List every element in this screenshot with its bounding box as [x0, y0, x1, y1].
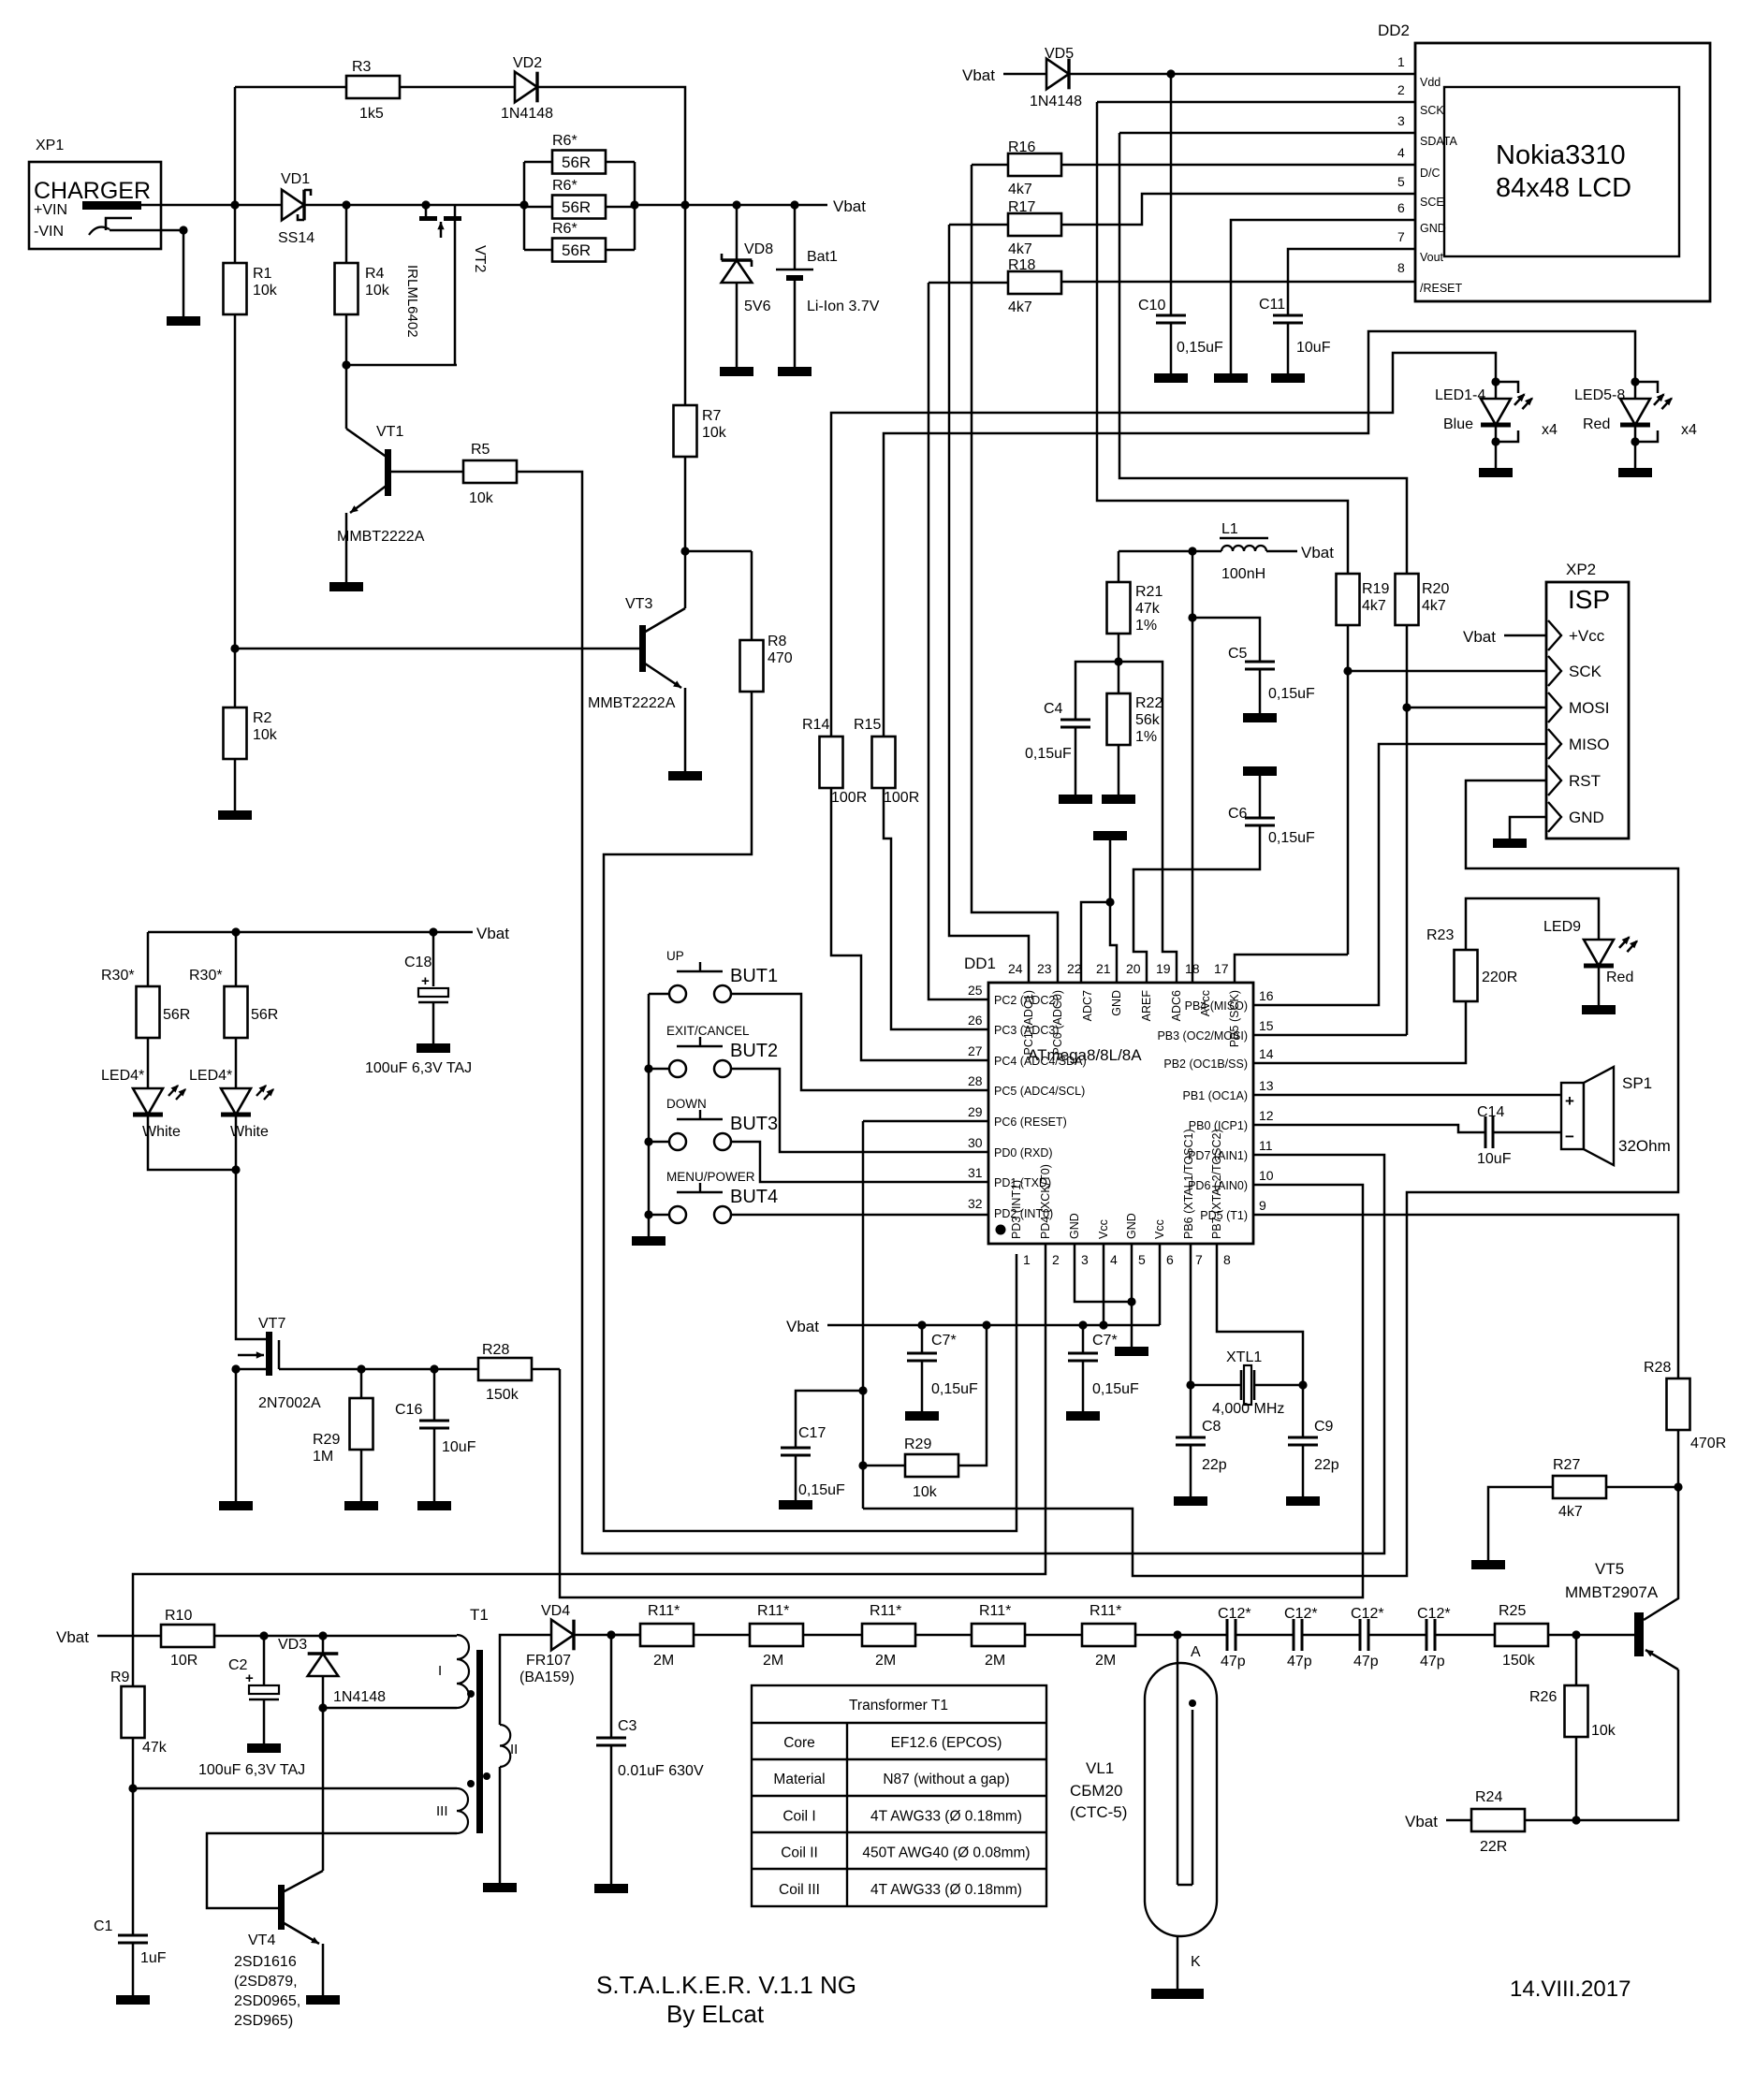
- svg-text:20: 20: [1126, 961, 1141, 976]
- svg-text:22p: 22p: [1314, 1457, 1339, 1473]
- svg-text:1: 1: [1023, 1252, 1031, 1267]
- svg-text:N87 (without a gap): N87 (without a gap): [883, 1772, 1009, 1787]
- node R6 right bus on rail: [630, 200, 638, 209]
- svg-text:4k7: 4k7: [1008, 299, 1032, 315]
- svg-text:C8: C8: [1202, 1419, 1221, 1435]
- svg-text:PC3 (ADC3): PC3 (ADC3): [994, 1024, 1059, 1037]
- svg-text:4,000 MHz: 4,000 MHz: [1212, 1401, 1284, 1417]
- svg-text:0,15uF: 0,15uF: [1025, 746, 1072, 762]
- svg-text:VT3: VT3: [625, 596, 652, 612]
- button BUT3 DOWN: [644, 1137, 652, 1145]
- crystal XTL1 4,000 MHz: [1191, 1384, 1241, 1387]
- svg-text:L1: L1: [1221, 521, 1238, 537]
- node C10 tap: [1166, 69, 1175, 78]
- svg-text:2SD0965,: 2SD0965,: [234, 1993, 300, 2009]
- svg-text:4k7: 4k7: [1008, 182, 1032, 197]
- svg-text:(CTC-5): (CTC-5): [1070, 1803, 1127, 1821]
- svg-text:LED9: LED9: [1543, 919, 1581, 935]
- svg-text:R28: R28: [482, 1342, 509, 1358]
- svg-text:Coil I: Coil I: [782, 1808, 815, 1824]
- svg-text:R29: R29: [904, 1436, 931, 1452]
- svg-text:10uF: 10uF: [1477, 1151, 1512, 1167]
- wire R5 to PD7 bus: [517, 472, 582, 1554]
- svg-text:14.VIII.2017: 14.VIII.2017: [1510, 1976, 1631, 2002]
- svg-text:T1: T1: [470, 1606, 489, 1624]
- XP2 pin SCK: [1548, 656, 1561, 686]
- svg-text:Vbat: Vbat: [786, 1318, 819, 1335]
- svg-text:R23: R23: [1426, 927, 1454, 943]
- svg-text:MISO: MISO: [1569, 736, 1609, 753]
- ground C10: [1154, 373, 1188, 383]
- svg-text:R27: R27: [1553, 1457, 1580, 1473]
- svg-text:C16: C16: [395, 1402, 422, 1418]
- ground C9: [1286, 1496, 1320, 1506]
- svg-text:−: −: [1565, 1128, 1574, 1145]
- resistor R14 100R: [820, 736, 843, 788]
- node C5 branch: [1188, 613, 1196, 621]
- svg-text:470R: 470R: [1690, 1436, 1726, 1451]
- svg-text:R11*: R11*: [870, 1603, 901, 1619]
- svg-text:10uF: 10uF: [442, 1439, 476, 1455]
- svg-text:LED4*: LED4*: [189, 1068, 232, 1084]
- svg-text:Coil II: Coil II: [781, 1845, 818, 1861]
- wire R10 to T1 winding I: [214, 1635, 457, 1638]
- svg-text:Transformer T1: Transformer T1: [849, 1698, 948, 1714]
- wire AVcc down to DD1 pin18: [1192, 618, 1194, 984]
- ground VT3 emitter: [668, 771, 702, 780]
- svg-text:47p: 47p: [1353, 1654, 1379, 1670]
- button BUT4 MENU/POWER: [644, 1210, 652, 1218]
- resistor R25 150k: [1495, 1624, 1548, 1646]
- svg-text:4k7: 4k7: [1362, 598, 1386, 614]
- svg-text:R5: R5: [471, 442, 490, 458]
- battery Bat1 Li-Ion 3.7V: [794, 205, 797, 270]
- svg-text:Red: Red: [1606, 970, 1633, 985]
- svg-text:0,15uF: 0,15uF: [798, 1482, 845, 1498]
- svg-text:VD3: VD3: [278, 1637, 307, 1653]
- wire PC3 to LED5-8: [884, 788, 988, 1029]
- wire R8 to PD3/INT1: [604, 692, 1016, 1531]
- svg-text:4: 4: [1397, 145, 1405, 160]
- node C7a: [917, 1320, 926, 1329]
- wire XTAL1 pin7: [1190, 1244, 1192, 1385]
- T1 polarity dot II: [483, 1772, 490, 1780]
- capacitor chain C12* 47p x4: [1226, 1619, 1229, 1651]
- wire VD4 out: [574, 1634, 640, 1637]
- resistor R19 4k7: [1337, 574, 1360, 625]
- node VT7 source: [231, 1364, 240, 1373]
- node LED cathodes: [231, 1165, 240, 1174]
- svg-text:R11*: R11*: [648, 1603, 680, 1619]
- resistor R8 470: [685, 550, 752, 553]
- svg-text:A: A: [1191, 1644, 1201, 1660]
- svg-text:R6*: R6*: [552, 221, 578, 237]
- ground C8: [1174, 1496, 1207, 1506]
- wire PB0 to C14: [1253, 1125, 1485, 1132]
- svg-text:PD2 (INT0): PD2 (INT0): [994, 1207, 1053, 1220]
- svg-text:4T AWG33 (Ø 0.18mm): 4T AWG33 (Ø 0.18mm): [870, 1808, 1022, 1824]
- svg-text:R22: R22: [1135, 695, 1163, 711]
- svg-text:C12*: C12*: [1417, 1606, 1451, 1622]
- ground Bat1: [778, 367, 812, 376]
- svg-text:BUT1: BUT1: [730, 966, 778, 986]
- resistor R23 220R: [1253, 1001, 1466, 1063]
- svg-text:SCE: SCE: [1420, 196, 1444, 209]
- ground C1: [116, 1995, 150, 2005]
- svg-text:19: 19: [1156, 961, 1171, 976]
- capacitor C7* 0,15uF: [921, 1325, 924, 1353]
- diode VD1 SS14 schottky: [282, 190, 304, 221]
- svg-text:4: 4: [1110, 1252, 1118, 1267]
- svg-text:AREF: AREF: [1140, 990, 1153, 1022]
- button ground bus: [648, 994, 651, 1236]
- wire MOSI to DD1 pin15: [1253, 1034, 1407, 1037]
- svg-text:GND: GND: [1068, 1213, 1081, 1239]
- node VD3: [318, 1631, 327, 1640]
- diode VD3 1N4148: [322, 1636, 325, 1654]
- DD1 pin1 marker: [996, 1225, 1006, 1235]
- svg-text:C4: C4: [1044, 701, 1063, 717]
- svg-text:C11: C11: [1259, 297, 1285, 313]
- capacitor C6 0,15uF inverted: [1243, 766, 1277, 776]
- wire R29 to Vbat: [958, 1325, 987, 1466]
- svg-text:VD1: VD1: [281, 171, 310, 187]
- ground C7*: [1066, 1411, 1100, 1421]
- resistor R2 10k: [234, 649, 237, 707]
- wire R9 to winding III node: [132, 1738, 135, 1788]
- svg-text:R3: R3: [352, 59, 372, 75]
- svg-text:5: 5: [1397, 174, 1405, 189]
- svg-text:47p: 47p: [1420, 1654, 1445, 1670]
- svg-text:XP2: XP2: [1566, 561, 1596, 578]
- svg-text:PC5 (ADC4/SCL): PC5 (ADC4/SCL): [994, 1085, 1085, 1098]
- svg-text:VD8: VD8: [744, 241, 773, 257]
- node SCK to ISP: [1343, 666, 1352, 675]
- svg-text:Vbat: Vbat: [833, 197, 866, 215]
- svg-text:23: 23: [1037, 961, 1052, 976]
- svg-text:R17: R17: [1008, 199, 1035, 215]
- wire RESET net PC6: [863, 1120, 988, 1123]
- node divider tap: [1114, 657, 1122, 665]
- svg-text:PB0 (ICP1): PB0 (ICP1): [1189, 1119, 1248, 1132]
- wire R7 to VT3 collector node: [684, 457, 687, 551]
- svg-text:10uF: 10uF: [1296, 340, 1331, 356]
- node VT5 base: [1572, 1630, 1580, 1639]
- capacitor C14 10uF: [1484, 1116, 1487, 1148]
- wire LCD GND pin6 to ground: [1231, 220, 1415, 373]
- svg-text:(BA159): (BA159): [519, 1670, 575, 1685]
- node C17 tap: [858, 1386, 867, 1394]
- svg-text:C10: C10: [1138, 298, 1165, 314]
- svg-text:8: 8: [1397, 260, 1405, 275]
- capacitor C18 100uF tantalum: [432, 932, 435, 986]
- wire winding II to ground: [499, 1767, 502, 1883]
- connector XP1 CHARGER: [29, 162, 161, 249]
- svg-text:150k: 150k: [486, 1387, 519, 1403]
- svg-text:22p: 22p: [1202, 1457, 1227, 1473]
- svg-text:+Vcc: +Vcc: [1569, 627, 1605, 645]
- wire AVcc rail to L1: [1119, 550, 1221, 553]
- svg-text:VT2: VT2: [472, 245, 488, 272]
- resistor R21 47k 1%: [1118, 551, 1120, 582]
- resistor R10 10R: [161, 1625, 214, 1647]
- svg-text:SS14: SS14: [278, 230, 314, 246]
- capacitor C8 22p: [1190, 1385, 1192, 1437]
- svg-text:PB2 (OC1B/SS): PB2 (OC1B/SS): [1163, 1057, 1248, 1071]
- ground C2: [247, 1743, 281, 1753]
- T1 polarity dot III: [467, 1780, 475, 1787]
- svg-text:100R: 100R: [884, 790, 919, 806]
- svg-text:PC2 (ADC2): PC2 (ADC2): [994, 994, 1059, 1007]
- transistor VT4 2SD1616 npn: [278, 1885, 285, 1930]
- svg-text:0,15uF: 0,15uF: [1268, 830, 1315, 846]
- wire SCK net: [1347, 625, 1350, 955]
- wire VD2 to Vbat rail: [537, 87, 685, 205]
- svg-text:0.01uF 630V: 0.01uF 630V: [618, 1763, 704, 1779]
- svg-text:56k: 56k: [1135, 712, 1161, 728]
- wire divider tap to ADC6 pin19: [1119, 662, 1177, 984]
- ground LCD GND: [1214, 373, 1248, 383]
- ground AREF/GND pins: [1093, 831, 1127, 840]
- wire R3 branch up: [234, 87, 237, 205]
- wire PD4 pump drive net: [133, 1244, 1046, 1686]
- wire PC4 to LED1-4: [831, 788, 988, 1060]
- ground ISP: [1493, 839, 1527, 848]
- svg-text:-VIN: -VIN: [34, 224, 64, 240]
- svg-text:VT1: VT1: [376, 424, 403, 440]
- wire winding III: [133, 1787, 457, 1790]
- resistor R16 4k7: [972, 164, 1008, 167]
- svg-text:C12*: C12*: [1351, 1606, 1384, 1622]
- ground tube cathode: [1151, 1989, 1204, 1999]
- zener VD8 5V6: [736, 205, 739, 260]
- wire VD3 node down to VT4 collector: [322, 1708, 325, 1871]
- svg-text:СБМ20: СБМ20: [1070, 1782, 1123, 1800]
- wire R16 down to DD1 pin23: [972, 165, 1058, 984]
- ground -VIN: [167, 316, 200, 326]
- transistor VT7 2N7002A n-MOSFET: [236, 1170, 267, 1339]
- svg-text:14: 14: [1259, 1046, 1274, 1061]
- svg-text:2M: 2M: [653, 1653, 674, 1669]
- node VD8: [732, 200, 740, 209]
- svg-text:Vbat: Vbat: [1301, 544, 1334, 561]
- svg-text:PC6 (RESET): PC6 (RESET): [994, 1116, 1067, 1129]
- svg-text:31: 31: [968, 1165, 983, 1180]
- svg-text:17: 17: [1214, 961, 1229, 976]
- svg-text:18: 18: [1185, 961, 1200, 976]
- svg-text:(2SD879,: (2SD879,: [234, 1974, 298, 1990]
- svg-text:4k7: 4k7: [1558, 1504, 1583, 1520]
- node winding III top: [128, 1784, 137, 1792]
- svg-text:PC4 (ADC4/SDA): PC4 (ADC4/SDA): [994, 1055, 1087, 1068]
- svg-text:R11*: R11*: [979, 1603, 1011, 1619]
- ground LED9: [1582, 1005, 1616, 1014]
- svg-text:24: 24: [1008, 961, 1023, 976]
- resistors R6* 3x56R parallel: [523, 162, 526, 250]
- resistor R29 1M gate pulldown: [360, 1369, 363, 1398]
- wire BUT3 to PD1: [754, 1142, 988, 1182]
- wire BUT4 to PD2: [754, 1214, 988, 1217]
- svg-text:R20: R20: [1422, 581, 1449, 597]
- speaker SP1 32Ohm: [1561, 1083, 1584, 1149]
- svg-text:Nokia3310: Nokia3310: [1496, 140, 1626, 170]
- wire MISO net: [1253, 744, 1546, 1005]
- svg-text:56R: 56R: [163, 1007, 190, 1023]
- svg-text:47p: 47p: [1221, 1654, 1246, 1670]
- svg-text:56R: 56R: [562, 198, 591, 216]
- resistor R29 10k reset pullup: [863, 1465, 905, 1467]
- svg-text:BUT4: BUT4: [730, 1187, 778, 1207]
- node R29 left: [858, 1461, 867, 1469]
- node XTAL1: [1186, 1380, 1194, 1389]
- svg-text:C9: C9: [1314, 1419, 1334, 1435]
- svg-text:+: +: [245, 1670, 254, 1686]
- svg-text:0,15uF: 0,15uF: [931, 1381, 978, 1397]
- svg-text:10k: 10k: [365, 283, 390, 299]
- node VT3 collector / R8: [680, 547, 689, 555]
- svg-text:By ELcat: By ELcat: [666, 2000, 765, 2028]
- svg-text:R16: R16: [1008, 139, 1035, 155]
- svg-text:5V6: 5V6: [744, 299, 771, 314]
- wire R16 to LCD D/C pin4: [1061, 164, 1415, 167]
- svg-text:GND: GND: [1569, 809, 1604, 826]
- svg-text:MOSI: MOSI: [1569, 699, 1609, 717]
- svg-text:2: 2: [1052, 1252, 1060, 1267]
- svg-text:10k: 10k: [702, 425, 727, 441]
- svg-text:DOWN: DOWN: [666, 1097, 707, 1111]
- ground C7*: [905, 1411, 939, 1421]
- ground VT1 emitter: [329, 582, 363, 591]
- wire MOSI net: [1406, 625, 1409, 1035]
- svg-text:RST: RST: [1569, 772, 1601, 790]
- node LED column: [231, 927, 240, 936]
- svg-text:VL1: VL1: [1086, 1759, 1114, 1777]
- node charger output: [230, 200, 239, 209]
- svg-text:7: 7: [1397, 229, 1405, 244]
- svg-text:25: 25: [968, 983, 983, 998]
- svg-text:C14: C14: [1477, 1104, 1504, 1120]
- svg-text:R6*: R6*: [552, 133, 578, 149]
- resistor R18 4k7: [929, 282, 1008, 284]
- svg-text:470: 470: [768, 650, 793, 666]
- ground C18: [417, 1043, 450, 1053]
- button BUT1 UP: [649, 993, 669, 996]
- svg-text:10k: 10k: [253, 727, 278, 743]
- svg-text:ADC6: ADC6: [1170, 990, 1183, 1021]
- svg-text:Coil III: Coil III: [779, 1882, 820, 1898]
- svg-text:10k: 10k: [913, 1484, 938, 1500]
- wire Vbat rail backlight: [148, 931, 473, 934]
- node R27/R28 junction: [1674, 1482, 1682, 1491]
- resistor chain R11* 2M x5: [611, 1634, 640, 1637]
- XP2 pin GND: [1548, 802, 1561, 832]
- wire to GND pin21: [1110, 902, 1117, 984]
- wire BUT2 to PD0: [754, 1069, 988, 1152]
- svg-text:D/C: D/C: [1420, 167, 1441, 180]
- svg-text:C5: C5: [1228, 646, 1248, 662]
- svg-text:1%: 1%: [1135, 618, 1157, 634]
- svg-text:PB3 (OC2/MOSI): PB3 (OC2/MOSI): [1157, 1029, 1248, 1043]
- wire +VIN to VD1: [141, 204, 282, 207]
- ground C11: [1271, 373, 1305, 383]
- svg-text:8: 8: [1223, 1252, 1231, 1267]
- geiger tube VL1 SBM20: [1145, 1663, 1217, 1936]
- svg-text:VT7: VT7: [258, 1316, 285, 1332]
- svg-text:BUT3: BUT3: [730, 1114, 778, 1134]
- LED group LED5-8 Red x4: [1631, 377, 1639, 386]
- resistor R20 4k7: [1396, 574, 1419, 625]
- wire PB2 to R23 done above; wire PB1 to SP1: [1253, 1094, 1561, 1097]
- svg-text:VD4: VD4: [541, 1603, 570, 1619]
- svg-text:R29: R29: [313, 1432, 340, 1448]
- svg-text:10k: 10k: [1591, 1723, 1616, 1739]
- wire VT7 gate net: [279, 1368, 478, 1371]
- wire XTAL2 pin8: [1217, 1244, 1303, 1385]
- svg-text:XP1: XP1: [36, 138, 64, 153]
- svg-text:ISP: ISP: [1568, 585, 1610, 614]
- svg-text:SDATA: SDATA: [1420, 135, 1457, 148]
- capacitor C3 0.01uF 630V: [610, 1635, 613, 1738]
- XP2 pin +Vcc: [1548, 620, 1561, 650]
- svg-text:1N4148: 1N4148: [1030, 94, 1082, 109]
- svg-text:Red: Red: [1583, 416, 1610, 432]
- resistor R15 100R: [872, 736, 896, 788]
- svg-text:R11*: R11*: [1090, 1603, 1121, 1619]
- node C18: [429, 927, 437, 936]
- svg-text:1: 1: [1397, 54, 1405, 69]
- svg-text:1k5: 1k5: [359, 106, 384, 122]
- node MOSI to ISP: [1402, 703, 1411, 711]
- svg-text:LED4*: LED4*: [101, 1068, 144, 1084]
- ground C3: [594, 1884, 628, 1893]
- svg-text:C12*: C12*: [1218, 1606, 1251, 1622]
- svg-text:84x48 LCD: 84x48 LCD: [1496, 173, 1631, 203]
- wire PD7 AIN1 net: [582, 1155, 1384, 1553]
- node AVcc column: [1188, 547, 1196, 555]
- wire R17 to LCD SCE pin5: [1061, 194, 1415, 225]
- svg-text:32: 32: [968, 1196, 983, 1211]
- wire ISP RST net: [863, 780, 1678, 1576]
- svg-text:S.T.A.L.K.E.R. V.1.1 NG: S.T.A.L.K.E.R. V.1.1 NG: [596, 1971, 856, 1999]
- wire BUT1 to PC5: [754, 994, 988, 1090]
- svg-text:C1: C1: [94, 1918, 113, 1934]
- wire PD6 AIN0 net: [560, 1185, 1363, 1597]
- wire PD5 T1 to R28 470R: [1253, 1215, 1678, 1378]
- svg-text:10: 10: [1259, 1168, 1274, 1183]
- svg-text:R14: R14: [802, 717, 829, 733]
- svg-text:2M: 2M: [1095, 1653, 1116, 1669]
- ground C17: [779, 1500, 812, 1509]
- svg-text:4T AWG33 (Ø 0.18mm): 4T AWG33 (Ø 0.18mm): [870, 1882, 1022, 1898]
- ground winding II: [483, 1883, 517, 1892]
- resistor R28 470R: [1677, 1378, 1680, 1380]
- XP2 pin RST: [1548, 766, 1561, 795]
- svg-text:R30*: R30*: [101, 968, 135, 984]
- svg-text:C3: C3: [618, 1718, 637, 1734]
- svg-text:12: 12: [1259, 1108, 1274, 1123]
- svg-text:5: 5: [1138, 1252, 1146, 1267]
- svg-text:R10: R10: [165, 1608, 192, 1624]
- LED4* White left: [147, 1038, 150, 1088]
- svg-text:ADC7: ADC7: [1081, 990, 1094, 1021]
- svg-text:PD1 (TXD): PD1 (TXD): [994, 1176, 1051, 1189]
- wire C6 to AREF pin20: [1133, 825, 1260, 984]
- svg-text:Vbat: Vbat: [476, 925, 509, 942]
- node anode A: [1173, 1630, 1181, 1639]
- svg-text:Li-Ion 3.7V: Li-Ion 3.7V: [807, 299, 880, 314]
- svg-text:R19: R19: [1362, 581, 1389, 597]
- svg-text:LED5-8: LED5-8: [1574, 387, 1625, 403]
